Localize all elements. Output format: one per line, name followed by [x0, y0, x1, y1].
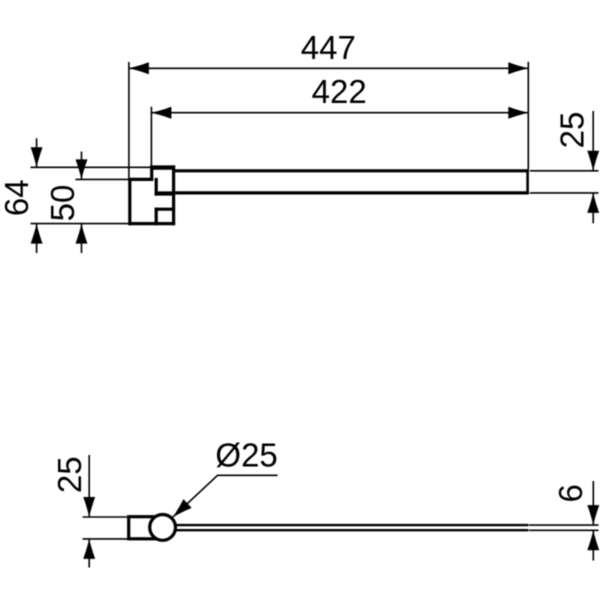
bracket step top edge: [150, 165, 175, 169]
extension line 422 left: [150, 107, 152, 166]
bracket right edge: [172, 165, 175, 225]
extension line 64/50 bottom: [31, 223, 129, 225]
bracket square notch left edge: [155, 208, 158, 226]
svg-text:422: 422: [312, 73, 367, 110]
bracket step left edge: [150, 165, 153, 181]
svg-text:Ø25: Ø25: [215, 436, 277, 473]
dimension line 6: [592, 481, 594, 561]
extension line 25 right top: [530, 170, 599, 172]
bar bottom line (side): [160, 529, 528, 531]
extension line 50 top: [75, 178, 128, 180]
extension line 25 left bottom: [83, 538, 128, 540]
svg-text:6: 6: [552, 484, 589, 502]
leader line Ø25: [173, 475, 278, 517]
arrowhead 64 top: [31, 147, 43, 167]
bar top edge (plan): [175, 169, 529, 172]
arrowhead 25 left bottom: [83, 539, 95, 559]
extension line right (bar end): [527, 62, 529, 170]
arrowhead 447 left: [129, 62, 149, 74]
arrowhead 64 bottom: [31, 224, 43, 244]
dimension line 64: [36, 138, 38, 253]
arrowhead 422 left: [151, 107, 171, 119]
svg-text:25: 25: [51, 456, 88, 493]
bar bottom edge (plan): [175, 191, 529, 194]
arrowhead 6 bottom: [587, 530, 599, 550]
arrowhead 447 right: [508, 62, 528, 74]
dimension line 25 left: [88, 455, 90, 568]
extension line 25 left top: [83, 516, 128, 518]
bracket bottom edge: [128, 222, 175, 225]
extension line 25 right bottom: [530, 192, 599, 194]
bracket inner step horizontal edge: [155, 191, 175, 195]
dimension line 50: [81, 152, 83, 254]
extension line 6 top: [529, 524, 599, 526]
svg-text:64: 64: [0, 179, 35, 216]
arrowhead 25 right top: [587, 151, 599, 171]
arrowhead leader Ø25: [169, 499, 192, 521]
wall plate (side): [129, 517, 163, 539]
svg-text:50: 50: [44, 185, 81, 222]
bar end cap (plan): [526, 169, 529, 194]
bracket inner step vertical edge: [155, 178, 158, 196]
arrowhead 6 top: [587, 505, 599, 525]
extension line 64 top: [31, 166, 151, 168]
svg-text:447: 447: [301, 29, 356, 66]
extension line 447 left: [128, 62, 130, 178]
arrowhead 50 bottom: [76, 224, 88, 244]
arrowhead 25 left top: [83, 497, 95, 517]
arrowhead 50 top: [76, 159, 88, 179]
arrowhead 25 right bottom: [587, 193, 599, 213]
bracket body top edge: [128, 178, 153, 181]
bracket square notch top edge: [155, 208, 175, 211]
extension line 6 bottom: [529, 529, 599, 531]
arrowhead 422 right: [508, 107, 528, 119]
bar top line (side): [160, 524, 528, 526]
dimension line 422: [151, 112, 528, 114]
bracket left edge: [128, 178, 131, 225]
dimension line 25 right: [592, 111, 594, 223]
bar end circle (side, Ø25): [150, 515, 176, 541]
svg-text:25: 25: [553, 112, 590, 149]
dimension line 447: [129, 67, 528, 69]
